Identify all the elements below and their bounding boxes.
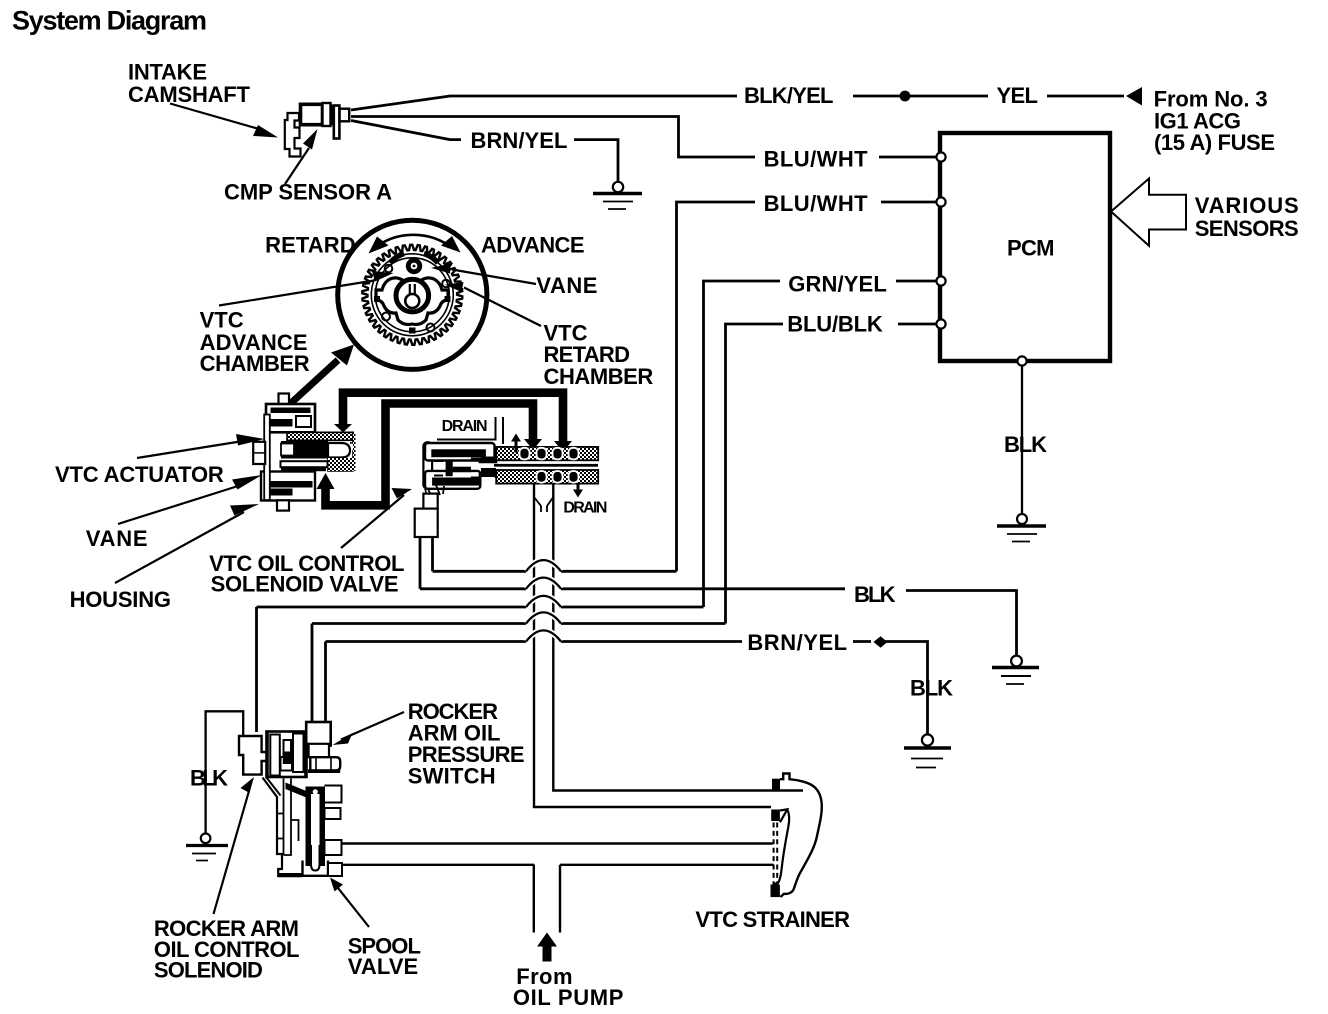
svg-text:BRN/YEL: BRN/YEL xyxy=(471,128,568,153)
svg-text:SENSORS: SENSORS xyxy=(1195,216,1299,241)
svg-text:BLK: BLK xyxy=(910,676,953,701)
svg-text:BLK: BLK xyxy=(1004,432,1047,457)
svg-text:VARIOUS: VARIOUS xyxy=(1195,193,1299,218)
svg-text:YEL: YEL xyxy=(997,83,1039,108)
svg-text:BLU/BLK: BLU/BLK xyxy=(787,312,883,337)
svg-text:SOLENOID: SOLENOID xyxy=(154,958,263,983)
svg-text:BLU/WHT: BLU/WHT xyxy=(764,191,869,216)
svg-text:GRN/YEL: GRN/YEL xyxy=(788,272,887,297)
svg-text:SOLENOID VALVE: SOLENOID VALVE xyxy=(211,571,399,596)
svg-text:VTC STRAINER: VTC STRAINER xyxy=(695,907,850,932)
svg-text:VANE: VANE xyxy=(86,526,148,551)
svg-text:VTC: VTC xyxy=(200,308,244,333)
svg-text:ADVANCE: ADVANCE xyxy=(481,233,585,258)
svg-text:System Diagram: System Diagram xyxy=(12,5,207,35)
svg-text:PCM: PCM xyxy=(1007,236,1055,261)
svg-text:BLK: BLK xyxy=(190,766,228,791)
svg-text:HOUSING: HOUSING xyxy=(70,587,171,612)
svg-text:DRAIN: DRAIN xyxy=(442,418,488,435)
svg-text:CHAMBER: CHAMBER xyxy=(200,351,310,376)
svg-text:BLU/WHT: BLU/WHT xyxy=(764,147,869,172)
svg-text:VANE: VANE xyxy=(536,273,597,298)
svg-text:DRAIN: DRAIN xyxy=(563,499,607,516)
svg-text:VTC ACTUATOR: VTC ACTUATOR xyxy=(55,462,224,487)
svg-text:(15 A) FUSE: (15 A) FUSE xyxy=(1154,130,1275,155)
svg-text:CAMSHAFT: CAMSHAFT xyxy=(128,82,251,107)
svg-text:BLK/YEL: BLK/YEL xyxy=(744,83,834,108)
svg-text:VALVE: VALVE xyxy=(348,954,419,979)
svg-text:INTAKE: INTAKE xyxy=(128,60,207,85)
svg-text:BLK: BLK xyxy=(854,582,896,607)
svg-text:CHAMBER: CHAMBER xyxy=(544,364,654,389)
svg-text:RETARD: RETARD xyxy=(265,233,356,258)
svg-text:OIL PUMP: OIL PUMP xyxy=(513,985,624,1010)
svg-text:SWITCH: SWITCH xyxy=(408,763,496,788)
svg-text:CMP SENSOR A: CMP SENSOR A xyxy=(224,179,392,204)
svg-text:BRN/YEL: BRN/YEL xyxy=(747,630,847,655)
